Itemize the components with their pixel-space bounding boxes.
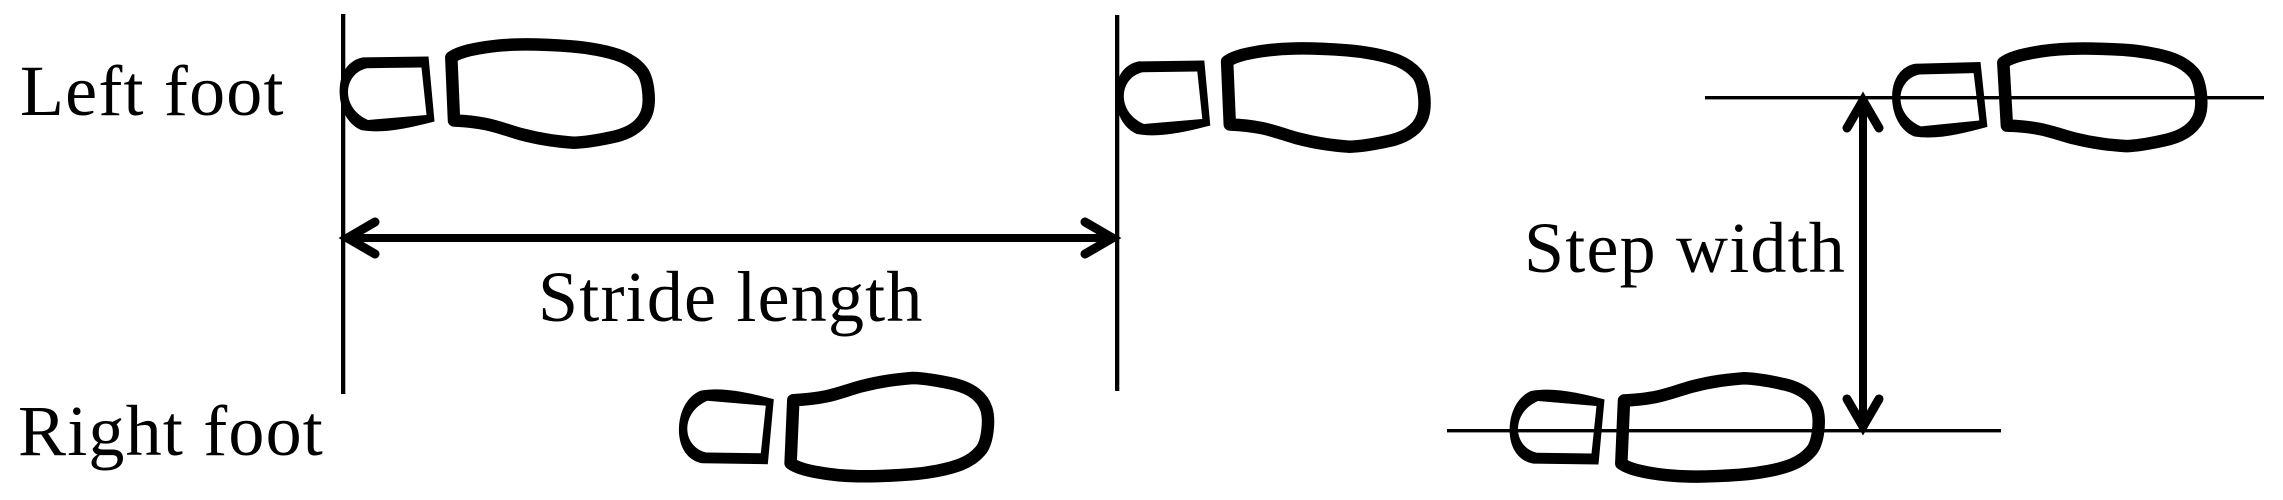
footprint left foot (top right)	[1891, 47, 2201, 150]
svg-text:Right foot: Right foot	[18, 391, 324, 471]
footprint left foot stride end	[1115, 48, 1424, 146]
svg-text:Stride length: Stride length	[538, 257, 924, 337]
footprint right foot (middle bottom)	[679, 378, 988, 476]
step width bottom reference line	[1447, 429, 2001, 432]
stride length double-headed arrow	[348, 222, 1113, 254]
footprint right foot (bottom right)	[1510, 378, 1819, 476]
vertical reference line 1 (left heel line)	[341, 14, 345, 394]
footprint left foot stride start	[340, 44, 649, 142]
svg-text:Left foot: Left foot	[20, 51, 285, 131]
svg-text:Step width: Step width	[1524, 208, 1846, 288]
step width top reference line	[1705, 96, 2264, 99]
step width double-headed arrow	[1847, 101, 1879, 427]
vertical reference line 2 (right heel line)	[1115, 15, 1119, 391]
